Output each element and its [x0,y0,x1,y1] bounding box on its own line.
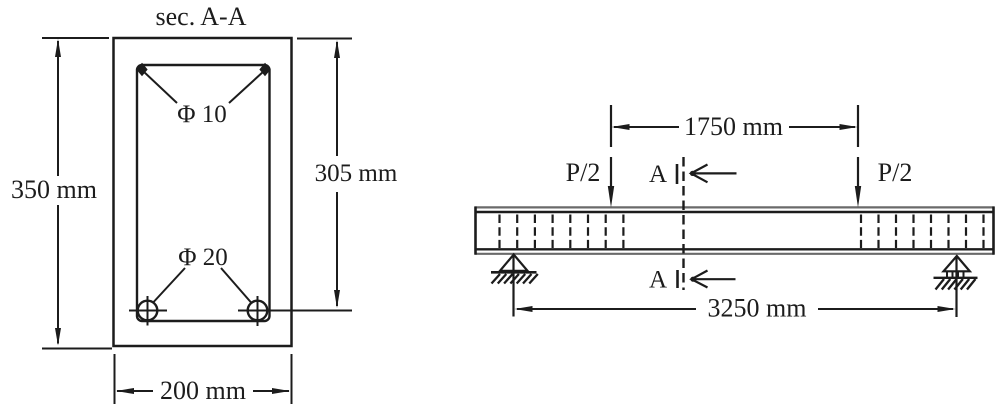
svg-text:A: A [649,267,667,294]
svg-text:3250 mm: 3250 mm [708,294,807,323]
svg-text:200 mm: 200 mm [160,376,246,405]
svg-text:Φ 20: Φ 20 [178,244,228,271]
svg-text:P/2: P/2 [566,158,601,187]
svg-text:P/2: P/2 [878,158,913,187]
svg-text:1750 mm: 1750 mm [684,112,783,141]
svg-text:A: A [649,161,667,188]
svg-text:sec. A-A: sec. A-A [156,2,247,31]
svg-text:305 mm: 305 mm [315,160,398,187]
svg-text:350 mm: 350 mm [11,175,97,204]
svg-text:Φ 10: Φ 10 [177,101,227,128]
